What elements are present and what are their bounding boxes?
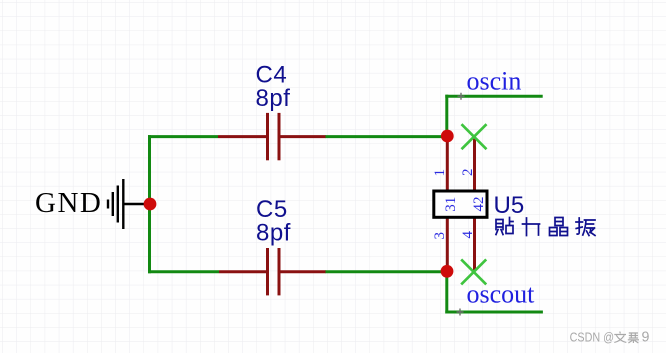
svg-text:9: 9	[642, 330, 650, 346]
svg-text:8pf: 8pf	[256, 85, 291, 112]
wire oscin vertical	[445, 95, 448, 137]
wire bottom-right horizontal	[325, 270, 448, 273]
crystal U5 pin 2-4 line	[473, 137, 476, 272]
ground	[35, 179, 150, 229]
wire oscout horizontal	[445, 311, 543, 314]
wire top-right horizontal	[325, 135, 448, 138]
svg-text:4: 4	[460, 231, 476, 239]
net label oscout	[457, 280, 536, 316]
svg-text:oscin: oscin	[467, 67, 522, 96]
wire top-left horizontal	[148, 135, 218, 138]
svg-text:8pf: 8pf	[256, 220, 291, 247]
svg-text:31: 31	[443, 197, 459, 212]
svg-text:CSDN @: CSDN @	[570, 330, 615, 345]
wire left vertical	[148, 135, 151, 273]
no-connect flag top	[462, 124, 487, 149]
capacitor C5	[219, 196, 326, 295]
wire bottom-left horizontal	[148, 270, 219, 273]
svg-text:U5: U5	[494, 192, 525, 219]
svg-text:oscout: oscout	[467, 280, 536, 309]
svg-text:GND: GND	[35, 187, 102, 219]
svg-text:2: 2	[460, 169, 476, 177]
comment 贴片晶振 (SMD crystal)	[496, 218, 595, 236]
svg-text:42: 42	[471, 197, 487, 212]
junction bottom	[441, 265, 454, 278]
crystal U5 body	[434, 191, 487, 217]
capacitor C4	[218, 61, 326, 160]
junction at GND	[144, 198, 157, 211]
crystal U5 pin 1-3 line	[446, 137, 449, 272]
svg-text:3: 3	[432, 232, 448, 240]
wire oscin horizontal	[445, 95, 542, 98]
junction top	[441, 130, 454, 143]
net label oscin	[458, 67, 522, 100]
svg-text:1: 1	[432, 169, 448, 177]
no-connect flag bottom	[461, 259, 486, 284]
watermark CSDN	[570, 330, 650, 346]
wire oscout vertical	[445, 272, 448, 314]
